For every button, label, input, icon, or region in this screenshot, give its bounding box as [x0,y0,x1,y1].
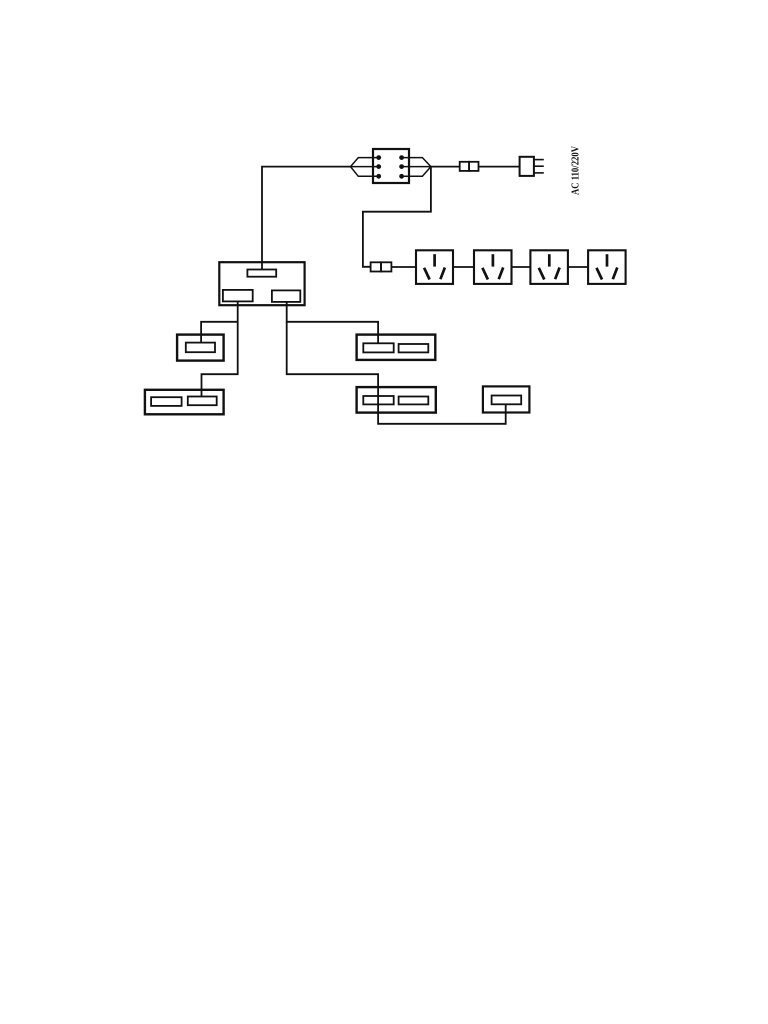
wire: X3 to X4 [568,266,588,268]
terminal block U1 pins (dots) [376,155,404,179]
wire: right fan to fuse F1 [431,166,460,168]
plug P1 body [520,157,534,176]
box B4 (two connectors, lower-middle) [357,387,436,413]
outlet X2 [474,250,512,284]
B1 connector [186,343,215,353]
A1 top connector [247,270,276,277]
outlet X1 [416,250,453,284]
wire: X2 to X3 [512,266,531,268]
plug P1 prongs [534,160,544,173]
right wire fan of U1 [402,158,431,177]
B3 right connector [399,344,429,352]
B3 left connector [363,343,393,352]
fuse F2 [371,262,392,271]
A1 bottom-right connector [272,290,300,302]
wire: lower branch to box B4 and through [287,322,506,424]
B4 right connector [399,397,429,405]
wire: U1 left fan to control box [262,167,351,270]
B2 right connector [188,397,217,406]
outlet X3 [530,250,568,284]
box B5 (single connector, far right) [483,386,530,412]
outlet X4 [588,250,626,284]
A1 bottom-left connector [223,290,253,302]
fuse F1 [460,162,479,171]
box B1 (single connector) [177,335,224,361]
box B2 (two connectors, bottom-left) [145,390,224,415]
left wire fan of U1 [351,158,379,177]
wire: fuse F1 to plug P1 [479,166,520,168]
box B3 (two connectors, right-middle) [357,335,436,360]
wire: A1 bottom-right down with branches [287,302,378,343]
B2 left connector [151,397,182,406]
terminal block U1 body [373,149,409,183]
wire branch to B1 [201,322,238,343]
control box A1 body [219,262,304,305]
wire: right fan point down and left to fuse F2 [363,167,431,267]
svg-text:AC 110/220V: AC 110/220V [570,146,582,195]
B5 connector [492,396,522,405]
wire: A1 bottom-left down with branch to box B1 [202,301,238,396]
B4 left connector [363,396,393,404]
wire: fuse F2 to outlet X1 [391,266,416,268]
wire: X1 to X2 [453,266,474,268]
